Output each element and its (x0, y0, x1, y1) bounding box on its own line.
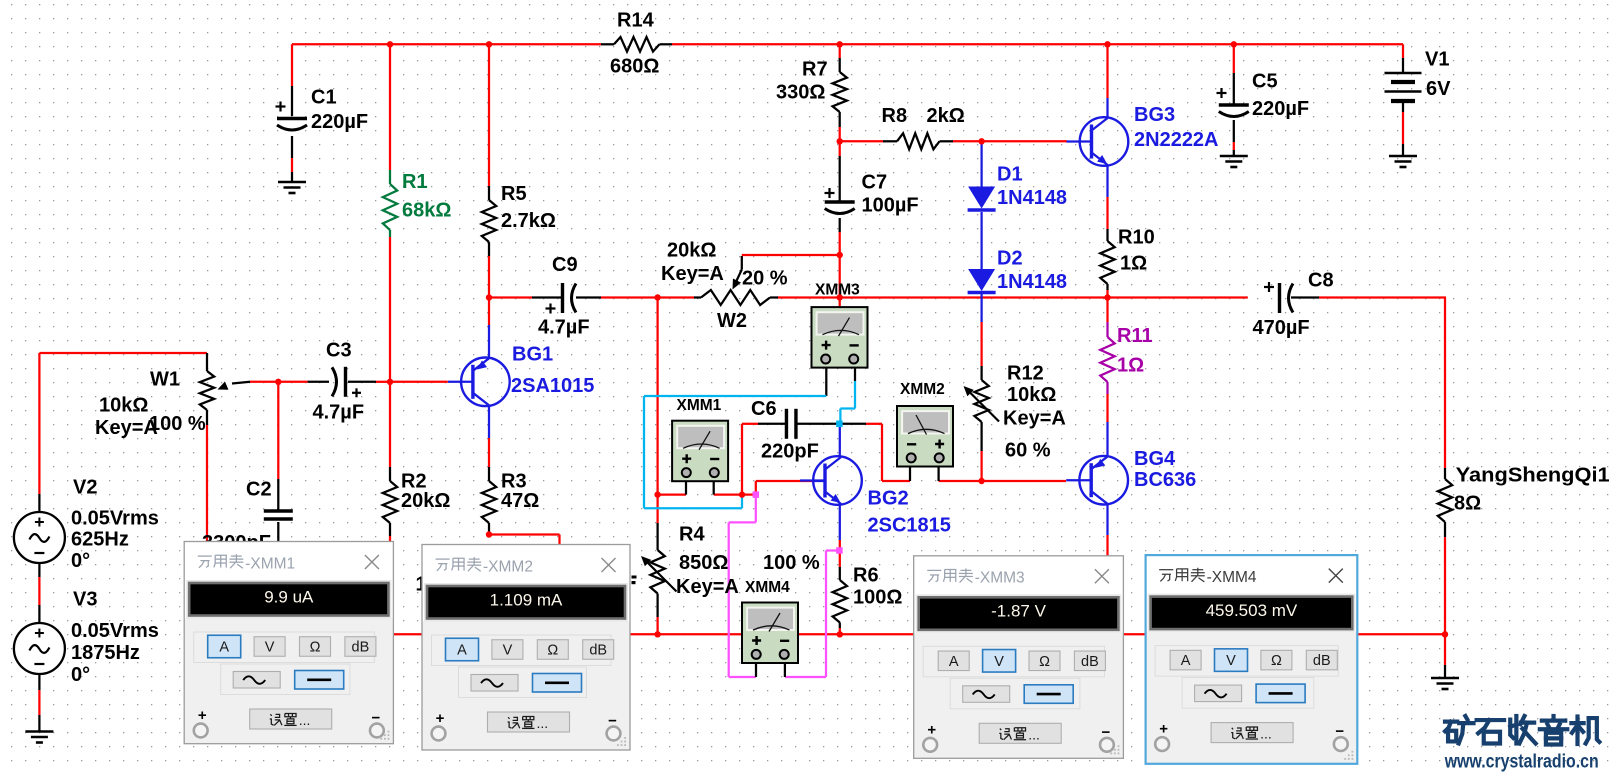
wire to XMM2 (881, 424, 883, 481)
svg-text:20 %: 20 % (742, 268, 788, 290)
wire V3 to ground (38, 674, 40, 690)
svg-text:Ω: Ω (1271, 653, 1282, 669)
dialog XMM1 (184, 542, 393, 744)
svg-text:+: + (436, 710, 445, 727)
node junction R8-D1 (978, 138, 984, 144)
wire BG4 collector down (1106, 505, 1108, 536)
resistor R14 (614, 37, 660, 52)
svg-text:R10: R10 (1118, 227, 1155, 249)
svg-text:-XMM4: -XMM4 (1207, 569, 1257, 586)
svg-text:XMM1: XMM1 (677, 397, 722, 414)
node junction R12-BG4 base (978, 478, 984, 484)
node junction XMM1-C6 node (739, 491, 745, 497)
svg-text:D1: D1 (997, 164, 1023, 186)
svg-text:1875Hz: 1875Hz (71, 642, 140, 664)
wire XMM4 terminal drops (755, 663, 757, 677)
svg-text:BG4: BG4 (1134, 448, 1176, 470)
capacitor C9 (561, 283, 564, 313)
svg-text:Key=A: Key=A (676, 576, 739, 598)
svg-text:1.109 mA: 1.109 mA (490, 590, 563, 609)
wire magenta XMM4 right (785, 676, 826, 678)
svg-text:100 %: 100 % (763, 552, 820, 574)
svg-text:V: V (503, 643, 513, 659)
svg-text:1N4148: 1N4148 (997, 271, 1067, 293)
svg-text:47Ω: 47Ω (501, 490, 539, 512)
capacitor C5 (1219, 103, 1249, 106)
capacitor C3 (344, 367, 347, 397)
diode D1 (980, 141, 982, 187)
svg-text:V1: V1 (1425, 49, 1449, 71)
svg-text:C7: C7 (862, 172, 888, 194)
svg-text:W1: W1 (150, 369, 180, 391)
svg-text:1Ω: 1Ω (1120, 253, 1147, 275)
node junction BG3 collector rail (1104, 41, 1110, 47)
svg-text:4.7µF: 4.7µF (313, 402, 365, 424)
resistor R5 (482, 200, 496, 242)
ground V1 (1389, 155, 1417, 158)
capacitor C1 (277, 117, 307, 120)
wire magenta XMM4 left (755, 495, 757, 523)
node junction R5 top (486, 41, 492, 47)
svg-text:dB: dB (352, 640, 370, 656)
wire C1 column (291, 44, 293, 86)
svg-text:+: + (1159, 721, 1168, 738)
svg-text:Key=A: Key=A (1003, 408, 1066, 430)
svg-text:Ω: Ω (547, 643, 558, 659)
node junction W1 wiper-C2 (275, 379, 281, 385)
wire C6 line (742, 423, 758, 425)
svg-text:2N2222A: 2N2222A (1134, 129, 1219, 151)
svg-text:BC636: BC636 (1134, 469, 1196, 491)
node junction R4-XMM1 node (654, 491, 660, 497)
svg-text:20kΩ: 20kΩ (667, 240, 716, 262)
svg-text:+: + (198, 707, 207, 724)
svg-text:1Ω: 1Ω (1117, 355, 1144, 377)
svg-text:2kΩ: 2kΩ (927, 105, 965, 127)
resistor R10 (1100, 241, 1114, 284)
multimeter icon XMM4 (742, 603, 798, 664)
svg-text:60 %: 60 % (1005, 440, 1051, 462)
svg-text:C2: C2 (246, 479, 272, 501)
wire C5 column (1233, 44, 1235, 73)
wire C3 line (278, 381, 307, 383)
wire main mid line y297 (489, 296, 532, 298)
svg-text:220pF: 220pF (761, 441, 819, 463)
svg-text:R12: R12 (1007, 363, 1044, 385)
ground C1 (278, 181, 306, 184)
svg-text:9.9 uA: 9.9 uA (264, 587, 314, 606)
node junction R1 top (387, 41, 393, 47)
battery V1 (1402, 44, 1404, 58)
svg-text:R4: R4 (679, 524, 705, 546)
svg-text:A: A (1181, 653, 1191, 669)
wire cyan XMM3 right (854, 367, 856, 381)
svg-text:C6: C6 (751, 398, 777, 420)
svg-text:C9: C9 (552, 254, 578, 276)
svg-text:V: V (994, 654, 1004, 670)
svg-text:-XMM1: -XMM1 (245, 555, 295, 572)
multimeter icon XMM2 (897, 406, 953, 467)
svg-text:0.05Vrms: 0.05Vrms (71, 620, 159, 642)
node cyan junction square (836, 421, 843, 428)
potentiometer W1 (206, 353, 208, 371)
wire D2 to R12 (980, 294, 982, 322)
svg-text:V: V (265, 640, 275, 656)
capacitor C6 (785, 409, 788, 439)
wire BG4 emitter (1106, 422, 1108, 456)
ground speaker (1431, 677, 1459, 680)
svg-text:4.7µF: 4.7µF (538, 317, 590, 339)
svg-text:2SC1815: 2SC1815 (868, 515, 951, 537)
wire R3 bottom to hidden (489, 533, 560, 535)
svg-text:-1.87 V: -1.87 V (991, 602, 1046, 621)
wire cyan XMM3 left (825, 367, 827, 396)
svg-text:-XMM2: -XMM2 (483, 558, 533, 575)
svg-text:XMM3: XMM3 (815, 281, 860, 298)
svg-text:V: V (1226, 653, 1236, 669)
svg-text:V3: V3 (73, 589, 97, 611)
ground sources (25, 730, 53, 733)
svg-text:www.crystalradio.cn: www.crystalradio.cn (1444, 752, 1599, 773)
resistor R1 (383, 184, 397, 230)
node junction C5 top (1231, 41, 1237, 47)
wire BG3 collector (1106, 44, 1108, 98)
svg-text:470µF: 470µF (1253, 317, 1310, 339)
svg-text:1N4148: 1N4148 (997, 187, 1067, 209)
potentiometer W2 (694, 296, 701, 298)
wire speaker ground (1444, 634, 1446, 665)
svg-text:Key=A: Key=A (661, 263, 724, 285)
svg-text:625Hz: 625Hz (71, 529, 129, 551)
node junction R1-R2-BG1 base (387, 379, 393, 385)
wire XMM1 line y494.6 (658, 493, 686, 495)
potentiometer R12 (974, 380, 988, 422)
svg-text:BG3: BG3 (1134, 104, 1175, 126)
svg-text:+: + (927, 721, 936, 738)
capacitor C7 (825, 200, 855, 203)
dialog XMM3 (914, 556, 1124, 759)
wire speaker column (1444, 298, 1446, 469)
svg-text:dB: dB (1313, 653, 1331, 669)
svg-text:C3: C3 (326, 340, 352, 362)
svg-text:459.503 mV: 459.503 mV (1206, 601, 1298, 620)
multimeter icon XMM3 (812, 307, 868, 368)
svg-text:V2: V2 (73, 477, 97, 499)
svg-text:A: A (949, 654, 959, 670)
multimeter icon XMM1 (672, 421, 728, 482)
wire BG2 emitter column (839, 505, 841, 540)
wire R4 column (656, 299, 658, 494)
svg-text:dB: dB (589, 643, 607, 659)
svg-text:...: ... (1260, 726, 1272, 742)
transistor BG1 (448, 358, 510, 407)
node junction R3 bottom (486, 531, 492, 537)
node junction R7-R8-C7 (837, 138, 843, 144)
wire BG3 emitter to R10 (1106, 166, 1108, 198)
svg-text:XMM2: XMM2 (900, 381, 945, 398)
svg-text:...: ... (1028, 726, 1040, 742)
svg-text:dB: dB (1081, 654, 1099, 670)
wire W2 wiper to C7 (742, 254, 840, 256)
svg-text:R1: R1 (402, 171, 428, 193)
node magenta junction square at BG2 base node (753, 491, 760, 498)
potentiometer R4 (650, 550, 664, 594)
svg-text:100Ω: 100Ω (853, 587, 902, 609)
wire bottom rail (207, 633, 1445, 635)
transistor BG3 (1067, 117, 1129, 166)
source V3 (38, 563, 40, 577)
svg-text:BG2: BG2 (868, 488, 909, 510)
svg-text:...: ... (299, 712, 311, 728)
svg-text:0.05Vrms: 0.05Vrms (71, 508, 159, 530)
wire C6 drop (741, 424, 743, 495)
ground C5 (1220, 155, 1248, 158)
svg-text:...: ... (537, 715, 549, 731)
wire R14 leads (601, 43, 614, 45)
svg-text:2.7kΩ: 2.7kΩ (501, 210, 556, 232)
svg-text:C1: C1 (311, 87, 337, 109)
wire R5 column (488, 44, 490, 186)
svg-text:10kΩ: 10kΩ (1007, 384, 1056, 406)
svg-text:-XMM3: -XMM3 (975, 570, 1025, 587)
source V2 (38, 494, 40, 513)
node junction C9-R4 column (654, 294, 660, 300)
svg-text:R8: R8 (882, 105, 908, 127)
svg-text:8Ω: 8Ω (1454, 493, 1481, 515)
capacitor C8 (1278, 283, 1281, 313)
speaker resistor YangShengQi1 (1438, 479, 1452, 522)
wire BG4 base line (982, 480, 1066, 482)
svg-text:C5: C5 (1252, 71, 1278, 93)
svg-text:R11: R11 (1117, 325, 1153, 347)
capacitor C2 (264, 509, 293, 512)
svg-text:220µF: 220µF (311, 111, 368, 133)
svg-text:R7: R7 (802, 59, 828, 81)
svg-text:C8: C8 (1308, 270, 1334, 292)
svg-text:2SA1015: 2SA1015 (511, 375, 594, 397)
wire C2 column (277, 382, 279, 479)
resistor R11 (1106, 299, 1108, 323)
transistor BG2 (839, 426, 841, 456)
wire R7/C7 column (839, 44, 841, 58)
resistor R8 (897, 133, 940, 149)
svg-text:A: A (457, 643, 467, 659)
wire R1 column (389, 44, 391, 170)
node junction R5-C9-BG1 (486, 294, 492, 300)
wire BG1 emitter (488, 299, 490, 326)
wire BG2 base link (755, 481, 757, 495)
svg-text:0°: 0° (71, 664, 90, 686)
svg-text:D2: D2 (997, 248, 1023, 270)
svg-text:W2: W2 (717, 310, 747, 332)
resistor R3 (482, 481, 496, 523)
resistor R6 (833, 580, 847, 623)
svg-text:330Ω: 330Ω (776, 82, 825, 104)
node junction R6 bottom rail (837, 631, 843, 637)
resistor R2 (383, 481, 397, 523)
svg-text:0°: 0° (71, 550, 90, 572)
svg-text:R5: R5 (501, 183, 527, 205)
svg-text:A: A (219, 640, 229, 656)
transistor BG4 (1066, 456, 1128, 505)
svg-text:R6: R6 (853, 565, 879, 587)
node junction speaker-ground rail (1442, 631, 1448, 637)
resistor R7 (833, 72, 847, 112)
svg-text:YangShengQi1: YangShengQi1 (1456, 465, 1609, 487)
node junction R4 bottom rail (654, 631, 660, 637)
svg-text:220µF: 220µF (1252, 98, 1309, 120)
wire BG1 base (390, 381, 448, 383)
wire XMM3 stub (839, 298, 841, 308)
wire XMM1 terminal drops (685, 476, 687, 495)
dialog XMM4 (1146, 555, 1358, 764)
svg-text:100 %: 100 % (149, 413, 206, 435)
svg-text:680Ω: 680Ω (610, 56, 659, 78)
svg-text:Ω: Ω (1039, 654, 1050, 670)
node junction C7-output line (837, 294, 843, 300)
wire top power rail (292, 43, 601, 45)
svg-text:BG1: BG1 (512, 344, 553, 366)
wire XMM2 terminal drops (909, 461, 911, 481)
hidden label F fragment (632, 576, 637, 579)
svg-text:100µF: 100µF (862, 195, 919, 217)
dialog XMM2 (422, 545, 630, 751)
diode D2 (980, 212, 982, 271)
node junction output node R10-R11 (1104, 294, 1110, 300)
svg-text:20kΩ: 20kΩ (401, 490, 450, 512)
svg-text:XMM4: XMM4 (745, 579, 790, 596)
svg-text:R14: R14 (617, 10, 655, 32)
node magenta junction square at BG2 emitter (836, 547, 843, 554)
wire R8 line (840, 140, 883, 142)
logo crystalradio (1445, 719, 1457, 723)
svg-text:850Ω: 850Ω (679, 552, 728, 574)
svg-text:6V: 6V (1426, 78, 1451, 100)
node junction R7 top (837, 41, 843, 47)
wire BG1 collector / R3 (488, 406, 490, 438)
node junction C7-W2 wiper (837, 252, 843, 258)
svg-text:10kΩ: 10kΩ (99, 395, 148, 417)
svg-text:Ω: Ω (310, 640, 321, 656)
wire W1 input (38, 353, 40, 494)
svg-text:68kΩ: 68kΩ (402, 200, 451, 222)
